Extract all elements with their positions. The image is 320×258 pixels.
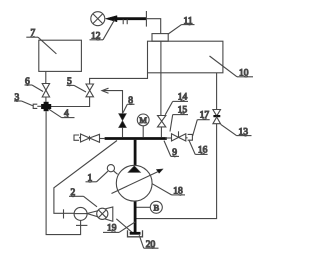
- union tick on suction line: [63, 209, 65, 218]
- pipe from breather through tank to valve 14: [160, 41, 162, 115]
- manifold line (thick): [105, 137, 167, 140]
- hand pump 2: motor circle with X: [97, 208, 108, 219]
- label 5: [67, 85, 87, 92]
- svg-text:2: 2: [71, 188, 76, 198]
- pump suction thick line (top): [134, 140, 137, 166]
- valve 14: [158, 116, 166, 138]
- valve 6: [42, 84, 49, 98]
- svg-text:19: 19: [107, 223, 117, 233]
- wire valve 17 down and along bottom to pump line: [136, 124, 217, 219]
- valve 15 (on right stub): [165, 131, 186, 141]
- svg-text:7: 7: [31, 29, 36, 39]
- valve 17: [213, 110, 221, 124]
- svg-text:12: 12: [91, 32, 101, 42]
- label 10: [210, 56, 254, 77]
- wire from arrow line to breather 11: [146, 19, 160, 34]
- label 20: [139, 235, 158, 248]
- svg-text:18: 18: [173, 187, 183, 197]
- label 3: [14, 101, 33, 106]
- svg-text:10: 10: [239, 69, 249, 79]
- svg-text:M: M: [139, 115, 147, 125]
- hand pump 2: circle: [74, 207, 87, 220]
- label 6: [25, 85, 44, 92]
- breather 11: [152, 34, 168, 42]
- tick marks on arrow line: [122, 19, 124, 24]
- vent symbol 12 (circle with X): [91, 12, 105, 26]
- wire from cone to strainer: [116, 219, 134, 234]
- strainer 20 (cup): [128, 230, 143, 237]
- svg-text:15: 15: [178, 106, 188, 116]
- node circle (label 1 pointer): [107, 165, 114, 172]
- svg-text:1: 1: [88, 174, 93, 184]
- label 8: [123, 104, 135, 113]
- pump variable arrow: [112, 169, 164, 194]
- svg-text:14: 14: [178, 92, 188, 102]
- svg-text:11: 11: [184, 16, 193, 26]
- label 16: [189, 140, 208, 155]
- label 15: [170, 113, 188, 131]
- label 11: [168, 25, 194, 34]
- junction node (bold cross): [41, 102, 51, 111]
- tank 10: [148, 41, 223, 73]
- pressure gauge M: [137, 114, 149, 137]
- label 17: [193, 118, 210, 136]
- wire tank7 to valve 6: [45, 71, 47, 83]
- wire valve 5 bottom to junction: [51, 97, 90, 107]
- tick below hand pump: [76, 224, 87, 226]
- plug 16: [186, 134, 193, 140]
- svg-text:4: 4: [64, 109, 69, 119]
- hand pump 2: triangle cone: [87, 207, 113, 221]
- plug 3: [33, 104, 41, 108]
- svg-text:20: 20: [146, 240, 156, 250]
- pipe tank to valve 17: [216, 73, 218, 110]
- svg-text:3: 3: [15, 93, 20, 103]
- label 7: [26, 37, 56, 54]
- label 14: [165, 100, 188, 115]
- svg-text:17: 17: [200, 111, 210, 121]
- label 18: [152, 184, 185, 195]
- svg-text:13: 13: [239, 127, 249, 137]
- label 1: [86, 171, 108, 182]
- label 4: [49, 109, 75, 117]
- label 2: [69, 196, 97, 207]
- valve 5: [86, 84, 94, 97]
- gauge B: [137, 201, 163, 213]
- wire suction diagonal from manifold to hand pump line: [54, 141, 117, 214]
- label 19: [103, 222, 135, 233]
- wire valve 6 to junction: [45, 97, 47, 102]
- wire balloon to pump edge: [114, 171, 118, 174]
- svg-text:9: 9: [172, 148, 177, 158]
- label 9: [164, 141, 179, 157]
- end tick of arrow line: [145, 11, 147, 27]
- svg-text:5: 5: [67, 77, 72, 87]
- pump suction thick line (bottom): [134, 201, 137, 233]
- drain valve w/ plug (left of manifold): [74, 134, 105, 142]
- wire left frame: junction down, right to hand pump, up: [46, 111, 81, 234]
- label 13: [221, 124, 252, 135]
- tank 7 (upper-left box): [39, 40, 82, 71]
- svg-text:8: 8: [128, 96, 133, 106]
- check valve 8 (filled) with flow arrow: [102, 88, 126, 137]
- pump 18 circle: [116, 165, 152, 201]
- arrow line to vent (thick): [105, 16, 146, 22]
- svg-text:6: 6: [25, 77, 30, 87]
- svg-text:B: B: [153, 202, 159, 212]
- wire tank bottom-left jog to valve 5: [90, 73, 148, 84]
- pump outlet triangle (filled): [128, 166, 141, 173]
- label 12: [90, 20, 115, 40]
- svg-text:16: 16: [198, 145, 208, 155]
